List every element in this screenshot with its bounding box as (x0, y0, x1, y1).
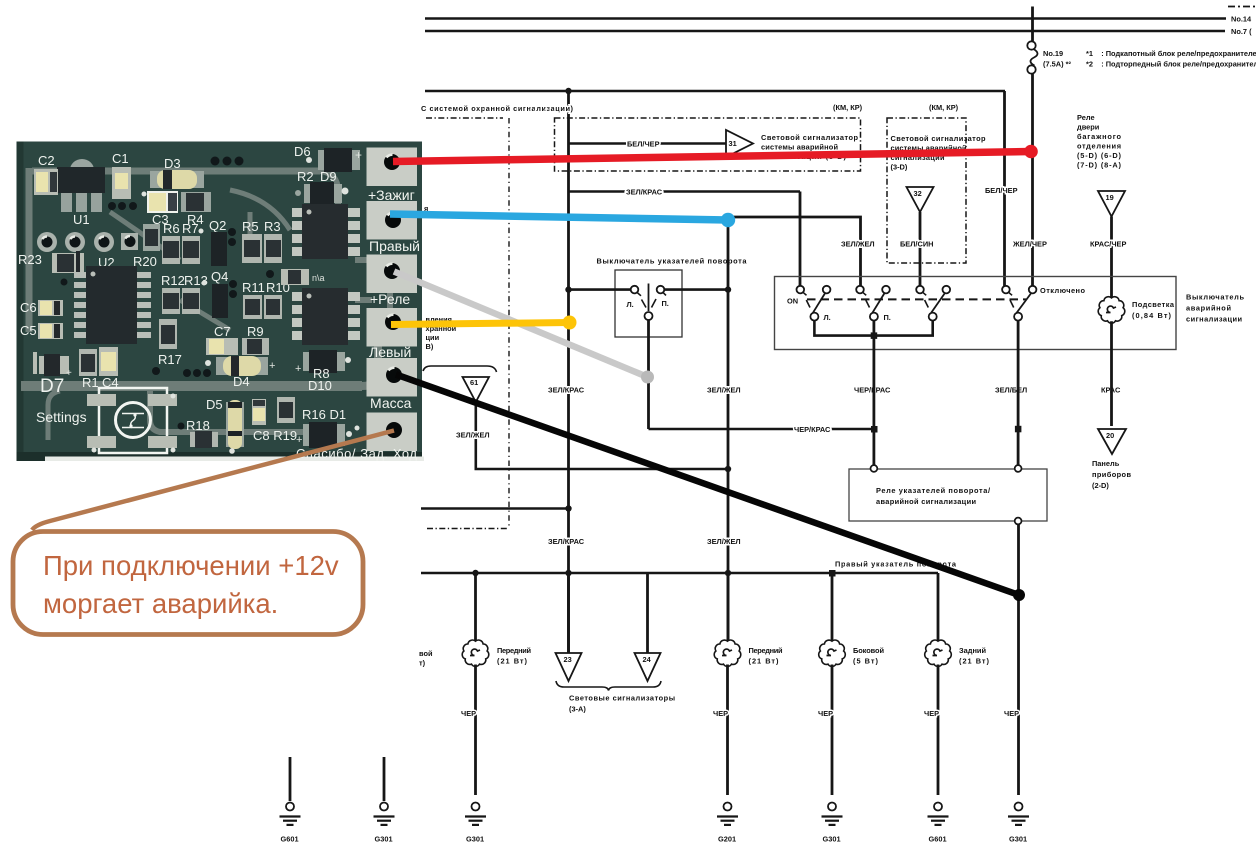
svg-text:двери: двери (1077, 123, 1100, 132)
dash-dot region boundary vertical (508, 118, 510, 528)
PCB board (17, 142, 423, 462)
svg-text:вой: вой (419, 649, 433, 658)
label Панель приборов (2-D) (1092, 459, 1131, 490)
svg-text:сигнализации: сигнализации (1186, 315, 1242, 324)
hazard contact 2 upper-right (882, 286, 890, 294)
connector pad Левый (367, 308, 418, 360)
node junction bus/ЗЕЛ-КРАС (565, 570, 571, 576)
svg-text:R3: R3 (264, 219, 281, 234)
traces (21, 168, 390, 440)
note bubble (13, 532, 363, 635)
wire No.14 power rail (425, 17, 1226, 20)
diode D9 / R2 (295, 169, 349, 205)
connector pad Спасибо/Зад.Ход (296, 413, 417, 462)
wire hazard Отключено side down to relay (ЗЕЛ/БЕЛ) (1017, 321, 1020, 466)
svg-text:G601: G601 (281, 835, 299, 842)
dashed fragment top-right (1228, 6, 1256, 8)
hazard contact 4 upper-right Отключено (1029, 286, 1037, 294)
hazard lower contact 2 (870, 313, 878, 321)
wire БЕЛ/СИН from 32 to hazard switch (919, 212, 922, 286)
svg-text:24: 24 (643, 655, 652, 664)
svg-text:(7.5A) *²: (7.5A) *² (1043, 60, 1071, 69)
wire КРАС/ЧЕР from 19 to hazard switch lamp (1110, 217, 1113, 278)
label Боковой (5 Вт) (853, 646, 884, 666)
svg-text:31: 31 (729, 139, 737, 148)
svg-text:БЕЛ/СИН: БЕЛ/СИН (900, 240, 933, 249)
node junction bus/side lamp (829, 570, 836, 577)
label Передний (21 Вт) left (497, 646, 531, 666)
resistor R13 (182, 288, 200, 314)
svg-text:Settings: Settings (36, 409, 87, 425)
svg-text:*1 : Подкапотный блок реле/: *1 : Подкапотный блок реле/предохранител… (1086, 49, 1256, 58)
wire No.7 power rail (425, 30, 1225, 33)
IC main U2 (61, 266, 152, 344)
svg-text:Световой сигнализатор: Световой сигнализатор (761, 133, 858, 142)
hidden label fragments left (424, 204, 457, 351)
label Реле двери багажного отделения (1077, 113, 1122, 170)
resistor R9 (242, 324, 269, 355)
PCB photo overlay (17, 142, 425, 462)
svg-text:системы аварийной: системы аварийной (761, 143, 838, 152)
svg-text:ЗЕЛ/КРАС: ЗЕЛ/КРАС (548, 386, 585, 395)
svg-text:C5: C5 (20, 323, 37, 338)
note text (43, 550, 339, 619)
svg-text:Передний: Передний (749, 646, 783, 655)
svg-text:R9: R9 (247, 324, 264, 339)
svg-text:G301: G301 (375, 835, 393, 842)
settings switch S1 (36, 388, 177, 453)
svg-text:П.: П. (662, 299, 669, 308)
via row mid-left (108, 202, 137, 210)
IC U1 regulator (57, 159, 105, 227)
wire hazard centre down to relay (873, 321, 876, 466)
svg-text:Реле указателей поворота/: Реле указателей поворота/ (876, 486, 990, 495)
capacitor C6 (20, 300, 63, 316)
svg-text:Q4: Q4 (211, 269, 228, 284)
wire ЗЕЛ/КРАС down to hazard ON contact (799, 192, 802, 287)
svg-text:приборов: приборов (1092, 470, 1131, 479)
svg-text:моргает аварийка.: моргает аварийка. (43, 588, 278, 619)
wire from П contact to ЗЕЛ/ЖЕЛ column (665, 288, 729, 291)
svg-text:+: + (296, 434, 302, 446)
node junction left column / switch feed (565, 286, 571, 292)
contact П of turn switch (657, 286, 666, 296)
connector pad +Реле (367, 255, 418, 308)
svg-text:ON: ON (787, 297, 798, 306)
svg-text:(КМ, КР): (КМ, КР) (833, 103, 863, 112)
illumination bulb Подсветка (1098, 277, 1125, 426)
node junction bus/ЗЕЛ-ЖЕЛ (725, 570, 731, 576)
svg-text:ЧЕР/КРАС: ЧЕР/КРАС (794, 425, 831, 434)
wire ЧЕР/КРАС horizontal (649, 428, 875, 431)
IC op-amp U4 (SOIC8 bottom) (292, 288, 360, 345)
capacitor D5 electrolytic (226, 400, 244, 449)
svg-text:(3-D): (3-D) (891, 163, 908, 172)
svg-text:No.7 (: No.7 ( (1231, 27, 1252, 36)
svg-text:Передний: Передний (497, 646, 531, 655)
label Световые сигнализаторы (3-А) (569, 694, 675, 714)
svg-text:+: + (355, 148, 362, 162)
via row top (211, 157, 244, 166)
relay pin bottom (1015, 518, 1022, 525)
transistor Q4 (212, 280, 237, 318)
node junction 61-wire / ЗЕЛ-ЖЕЛ column (725, 466, 731, 472)
hidden lamp label fragment (419, 649, 433, 668)
hazard contact 2 upper-left (856, 286, 866, 295)
svg-text:багажного: багажного (1077, 132, 1121, 141)
ground G301 far right (1008, 803, 1029, 842)
resistor R17 (158, 319, 182, 367)
capacitor C3 (147, 191, 178, 227)
hazard contact ON upper-left (797, 286, 807, 295)
wire БЕЛ/ЧЕР vertical to hazard switch (1003, 91, 1006, 286)
wire ЗЕЛ/КРАС branch (569, 190, 801, 193)
connector pad Правый (367, 201, 420, 254)
svg-text:D10: D10 (308, 378, 332, 393)
svg-text:Световые сигнализаторы: Световые сигнализаторы (569, 694, 675, 703)
resistor R1 (79, 349, 99, 390)
connector 32 triangle (907, 187, 934, 212)
ground stub left G301 (374, 757, 395, 842)
transistor Q2 (211, 228, 236, 266)
svg-text:R17: R17 (158, 352, 182, 367)
svg-text:R7: R7 (182, 221, 199, 236)
connector 19 triangle (1098, 191, 1125, 217)
jumper wire black Масса (396, 375, 1025, 602)
svg-text:Q2: Q2 (209, 218, 226, 233)
hazard switch arm 2 (866, 294, 884, 313)
svg-text:R13: R13 (184, 273, 208, 288)
diode D10 / R8 (295, 350, 351, 393)
svg-text:C8 R19: C8 R19 (253, 428, 297, 443)
node square connector on ЗЕЛ/БЕЛ (1015, 426, 1022, 433)
resistor R18 (178, 418, 219, 448)
svg-text:R6: R6 (163, 221, 180, 236)
wire ЗЕЛ/ЖЕЛ column x=728 (727, 217, 730, 641)
resistor R4 (181, 192, 211, 227)
hazard switch arm 4 (1010, 294, 1031, 313)
svg-text:ЧЕР: ЧЕР (1004, 709, 1019, 718)
svg-text:G201: G201 (718, 835, 736, 842)
svg-text:ции: ции (426, 333, 440, 342)
resistor R20 body (143, 224, 160, 251)
svg-text:ЗЕЛ/ЖЕЛ: ЗЕЛ/ЖЕЛ (707, 537, 741, 546)
svg-text:No.19: No.19 (1043, 49, 1063, 58)
svg-text:R1: R1 (82, 375, 99, 390)
wire top bus y=91 (425, 90, 1005, 93)
holes row (37, 232, 138, 252)
dash-dot box hazard flasher unit 2 (887, 118, 966, 263)
resistor R10 (264, 295, 282, 319)
svg-text:КРАС/ЧЕР: КРАС/ЧЕР (1090, 240, 1126, 249)
svg-text:(КМ, КР): (КМ, КР) (929, 103, 959, 112)
svg-text:D4: D4 (233, 374, 250, 389)
svg-text:(7-D) (8-A): (7-D) (8-A) (1077, 161, 1122, 170)
svg-text:Масса: Масса (370, 395, 412, 411)
svg-text:Реле: Реле (1077, 113, 1095, 122)
svg-text:При подключении +12v: При подключении +12v (43, 550, 339, 581)
lamp right side (819, 576, 846, 795)
svg-text:отделения: отделения (1077, 142, 1121, 151)
svg-text:+Зажиг: +Зажиг (368, 187, 415, 203)
connector 24 triangle (635, 573, 661, 681)
dash-dot region boundary bottom (427, 528, 509, 530)
relay pin top-right (1015, 465, 1022, 472)
svg-text:(21 Вт): (21 Вт) (497, 657, 528, 666)
node junction at ЗЕЛ/ЖЕЛ column (725, 286, 731, 292)
svg-text:(5 Вт): (5 Вт) (853, 657, 879, 666)
svg-text:19: 19 (1106, 193, 1114, 202)
wire lamp bus y=573 (421, 572, 938, 575)
svg-text:БЕЛ/ЧЕР: БЕЛ/ЧЕР (985, 186, 1018, 195)
turn switch arm (642, 284, 657, 321)
wire from rail to fuse No.19 (1031, 7, 1034, 42)
node junction bus / ЗЕЛ-КРАС column (565, 88, 571, 94)
svg-text:+: + (66, 368, 72, 379)
svg-text:R18: R18 (186, 418, 210, 433)
svg-text:Л.: Л. (824, 313, 831, 322)
svg-text:G301: G301 (1009, 835, 1027, 842)
note pointer line (32, 431, 394, 531)
diode D3 (142, 156, 205, 197)
svg-text:61: 61 (470, 378, 478, 387)
wire БЕЛ/ЧЕР branch to flasher 31 (569, 142, 727, 145)
svg-text:D5: D5 (206, 397, 223, 412)
svg-text:R16 D1: R16 D1 (302, 407, 346, 422)
wire into turn switch left (569, 288, 631, 291)
node square junction internal bus (871, 332, 878, 339)
hazard lower contact 1 (810, 313, 818, 321)
svg-text:аварийной: аварийной (1186, 304, 1231, 313)
svg-text:В): В) (426, 342, 434, 351)
svg-text:R5: R5 (242, 219, 259, 234)
resistor R5 (242, 234, 262, 263)
svg-text:ЗЕЛ/КРАС: ЗЕЛ/КРАС (548, 537, 585, 546)
svg-text:аварийной сигнализации: аварийной сигнализации (876, 497, 976, 506)
node junction y=508.5 (565, 505, 571, 511)
wire from 61 down and right (ЗЕЛ/ЖЕЛ) (476, 402, 728, 469)
capacitor C1 (112, 151, 131, 199)
svg-text:R12: R12 (161, 273, 185, 288)
svg-text:Выключатель: Выключатель (1186, 293, 1244, 302)
svg-text:БЕЛ/ЧЕР: БЕЛ/ЧЕР (627, 140, 660, 149)
capacitor C7 (206, 324, 238, 355)
svg-text:D3: D3 (164, 156, 181, 171)
wire from blue tap to hazard switch (ЗЕЛ/ЖЕЛ) (728, 217, 861, 286)
wire security box feed into ЗЕЛ/КРАС column (421, 507, 569, 510)
label Подсветка (0,84 Вт) (1132, 300, 1175, 320)
svg-text:П.: П. (884, 313, 891, 322)
lamp right rear (925, 573, 952, 795)
svg-text:No.14: No.14 (1231, 15, 1252, 24)
label Задний (21 Вт) (959, 646, 990, 666)
via row under R17 (152, 367, 211, 377)
connector 20 triangle (1098, 429, 1126, 454)
contact Л of turn switch (631, 286, 641, 296)
connector 31 triangle (726, 130, 753, 157)
svg-text:Панель: Панель (1092, 459, 1120, 468)
svg-text:(2-D): (2-D) (1092, 481, 1109, 490)
brace above 61 (423, 366, 497, 372)
diode D6 (294, 144, 362, 172)
ground G301 right (822, 803, 843, 842)
label Световой сигнализатор (3-D) right (891, 134, 986, 172)
jumper wire blue Правый (390, 213, 735, 227)
dash-dot region boundary top (426, 117, 503, 119)
svg-text:R11: R11 (242, 280, 265, 295)
svg-text:23: 23 (564, 655, 572, 664)
svg-text:*2 : Подторпедный блок реле: *2 : Подторпедный блок реле/предохраните… (1086, 60, 1256, 69)
hazard lower contact 3 (929, 313, 937, 321)
hazard contact 3 upper-right (943, 286, 951, 294)
svg-text:G301: G301 (823, 835, 841, 842)
svg-text:R23: R23 (18, 252, 42, 267)
svg-text:n\a: n\a (312, 273, 325, 283)
capacitor bank bottom-left (33, 352, 72, 379)
svg-text:(5-D) (6-D): (5-D) (6-D) (1077, 151, 1122, 160)
svg-text:20: 20 (1106, 431, 1114, 440)
resistor R11 (243, 295, 262, 319)
resistor R23 (18, 251, 84, 275)
connector pad +Зажиг (367, 148, 418, 204)
svg-text:D6: D6 (294, 144, 311, 159)
label Передний (21 Вт) right (749, 646, 783, 666)
svg-text:Выключатель указателей поворот: Выключатель указателей поворота (597, 257, 748, 266)
capacitor C5 (20, 323, 63, 339)
svg-text:Л.: Л. (627, 300, 634, 309)
hazard switch arm 3 (925, 294, 945, 313)
resistor R7 (182, 236, 200, 264)
connector 61 triangle (463, 377, 490, 402)
node square junction ЧЕР/КРАС (871, 426, 878, 433)
svg-text:(21 Вт): (21 Вт) (749, 657, 780, 666)
svg-text:ЗЕЛ/КРАС: ЗЕЛ/КРАС (626, 188, 663, 197)
svg-text:т): т) (419, 659, 426, 668)
svg-text:(0,84 Вт): (0,84 Вт) (1132, 311, 1172, 320)
capacitor C2 (34, 153, 58, 195)
svg-text:(3-А): (3-А) (569, 705, 586, 714)
svg-text:Левый: Левый (369, 344, 411, 360)
connector pad Масса (367, 358, 418, 411)
svg-text:U1: U1 (73, 212, 90, 227)
svg-text:ЧЕР: ЧЕР (924, 709, 939, 718)
lamp left front (462, 573, 489, 795)
svg-text:ЧЕР: ЧЕР (461, 709, 476, 718)
hazard switch box (775, 277, 1177, 350)
dash-dot box hazard flasher unit 1 (555, 118, 861, 171)
wire hazard internal bus (814, 321, 932, 336)
svg-text:(21 Вт): (21 Вт) (959, 657, 990, 666)
resistor R12 (162, 288, 180, 314)
hazard contact 1 upper-right (823, 286, 831, 294)
wire turn switch arm down (647, 320, 650, 429)
svg-text:D9: D9 (320, 169, 337, 184)
schematic group (280, 7, 1256, 842)
svg-text:C2: C2 (38, 153, 55, 168)
diode D4 (205, 356, 275, 389)
capacitor C8 / resistor R19 (252, 397, 297, 443)
diode D1 / R16 (229, 407, 359, 454)
svg-text:Отключено: Отключено (1040, 286, 1085, 295)
svg-text:C6: C6 (20, 300, 37, 315)
label Реле указателей поворота/аварийной сигнализации (876, 486, 990, 506)
label Выключатель аварийной сигнализации (1186, 293, 1244, 324)
svg-text:ЖЕЛ/ЧЕР: ЖЕЛ/ЧЕР (1012, 240, 1047, 249)
jumper wire red +Зажиг (393, 145, 1038, 162)
relay pin top-left (871, 465, 878, 472)
small resistor n\a (266, 269, 325, 285)
svg-text:+: + (269, 360, 275, 372)
svg-text:Задний: Задний (959, 646, 986, 655)
hazard contact 3 upper-left (916, 286, 926, 295)
svg-text:ЗЕЛ/ЖЕЛ: ЗЕЛ/ЖЕЛ (707, 386, 741, 395)
hazard switch arm 1 (806, 294, 825, 313)
svg-text:Боковой: Боковой (853, 646, 884, 655)
ground stub far left G601 (280, 757, 301, 842)
svg-text:G301: G301 (466, 835, 484, 842)
wire main left column x=568.5 (567, 91, 570, 653)
svg-text:ЗЕЛ/ЖЕЛ: ЗЕЛ/ЖЕЛ (456, 431, 490, 440)
svg-text:ЧЕР: ЧЕР (713, 709, 728, 718)
connector 23 triangle (556, 573, 582, 681)
svg-text:C1: C1 (112, 151, 129, 166)
resistor R6 (162, 236, 180, 264)
svg-text:C7: C7 (214, 324, 231, 339)
svg-text:32: 32 (914, 189, 922, 198)
fuse No.19 (7.5A) (1027, 41, 1037, 73)
dashed linkage line (807, 298, 1026, 300)
turn signal switch box (615, 270, 682, 337)
ground G601 right (928, 803, 949, 842)
node junction bus/lamp1 (472, 570, 478, 576)
svg-text:ЗЕЛ/ЖЕЛ: ЗЕЛ/ЖЕЛ (841, 240, 875, 249)
svg-text:R2: R2 (297, 169, 314, 184)
svg-text:Правый: Правый (369, 238, 420, 254)
svg-text:+Реле: +Реле (370, 291, 410, 307)
jumper wire yellow Левый (391, 316, 577, 330)
brace under 23/24 (556, 681, 661, 691)
relay box Реле указателей поворота (849, 469, 1047, 521)
svg-text:Подсветка: Подсветка (1132, 300, 1175, 309)
ground G201 (717, 803, 738, 842)
svg-text:ЧЕР: ЧЕР (818, 709, 833, 718)
capacitor C4 (99, 347, 119, 390)
svg-text:G601: G601 (929, 835, 947, 842)
svg-text:ЗЕЛ/БЕЛ: ЗЕЛ/БЕЛ (995, 386, 1027, 395)
svg-text:С системой охранной сигнализац: С системой охранной сигнализации) (421, 104, 574, 113)
svg-text:D7: D7 (40, 376, 64, 397)
hazard lower contact 4 (1014, 313, 1022, 321)
wire fuse to hazard switch (ЖЕЛ/ЧЕР) (1031, 74, 1034, 286)
jumper wire grey +Реле (394, 272, 654, 384)
wire relay output down to ground G301 (1017, 524, 1020, 795)
resistor R3 (264, 234, 282, 263)
svg-text:+: + (295, 363, 301, 375)
lamp right front (714, 573, 741, 795)
svg-text:Световой сигнализатор: Световой сигнализатор (891, 134, 986, 143)
hazard contact 4 upper-left (1002, 286, 1012, 295)
IC op-amp U3 (SOIC8 top) (292, 204, 360, 259)
ground G301 left-mid (465, 803, 486, 842)
label Световой сигнализатор (3-D) left (761, 133, 858, 161)
